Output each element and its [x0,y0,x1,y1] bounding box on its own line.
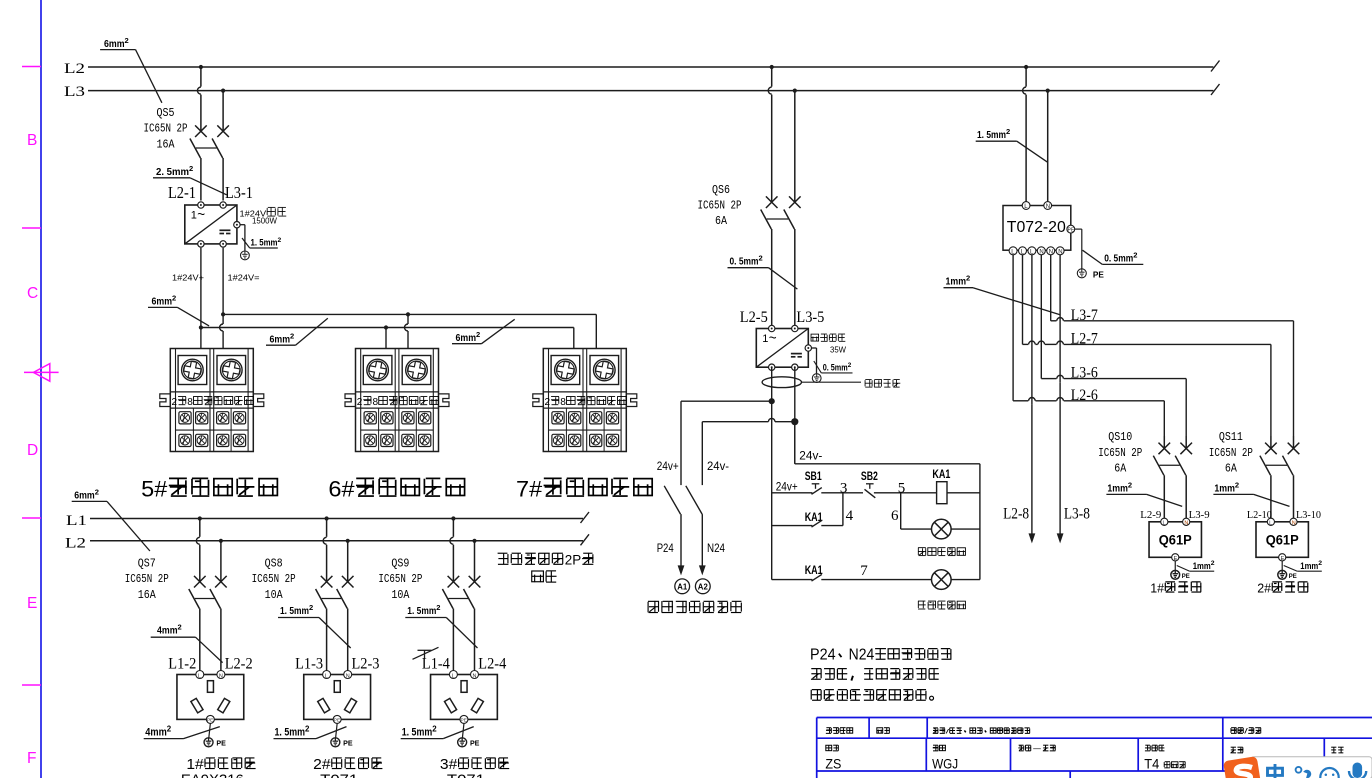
ground PE of U1 [241,251,250,260]
svg-text:QS10: QS10 [1108,431,1132,444]
label 3#电源插座 [440,757,509,778]
circuit breaker QS11 IC65N 2P 6A [1209,431,1299,518]
svg-text:PE: PE [1289,573,1298,580]
svg-text:1mm: 1mm [1107,483,1128,495]
svg-text:6: 6 [891,508,899,524]
svg-text:8: 8 [560,397,566,408]
wire label 6mm2 (distribution +) [148,294,209,326]
svg-text:2: 2 [1133,251,1137,260]
wire L2-7 output [1023,255,1271,436]
svg-text:IC65N 2P: IC65N 2P [252,573,296,586]
svg-text:L2-4: L2-4 [478,655,506,672]
wire label 1.5mm2 (T072) [976,127,1048,162]
svg-text:6A: 6A [715,215,727,228]
wire label 1mm2 (QS11) [1213,481,1289,507]
label start indicator lamp [918,548,965,556]
svg-text:IC65N 2P: IC65N 2P [698,200,742,213]
power socket XS3 (3#电源插座) [431,671,498,724]
node L3-9 [1189,510,1210,521]
svg-text:PE: PE [207,718,213,724]
note use blue wire [865,380,900,388]
svg-text:2#: 2# [1257,581,1271,595]
wire 24v- vertical [794,367,796,464]
svg-text:2: 2 [476,330,480,339]
svg-text:Q61P: Q61P [1266,532,1299,547]
wire U2 PE lead [812,348,817,373]
svg-text:5: 5 [898,480,906,496]
svg-text:1mm: 1mm [1300,561,1318,572]
wire P24 with arrow to A1 [657,514,685,575]
svg-text:6mm: 6mm [152,296,173,308]
power socket XS1 (1#电源插座) [177,671,244,724]
bus L2 (lower) [65,534,589,551]
svg-text:1#24V=: 1#24V= [228,273,260,283]
wire label 6mm2 (QS5 feeder) [100,36,162,103]
node L1-2 [168,655,196,672]
svg-text:F: F [27,750,36,767]
contact KA1 aux (NO) [805,508,854,527]
svg-text:6mm: 6mm [104,38,125,50]
svg-text:EA9X316: EA9X316 [181,772,244,778]
note P24/N24 outputs [810,647,951,701]
svg-text:1. 5mm: 1. 5mm [251,238,278,248]
svg-text:L3-10: L3-10 [1296,510,1321,521]
svg-text:2: 2 [309,603,313,612]
wire label 1.5mm2 (QS8 load) [278,603,351,648]
node L2-1 [168,183,196,202]
node L2-9 [1140,510,1161,521]
T072 output terminals [1009,247,1064,256]
svg-text:2: 2 [1235,481,1239,490]
svg-text:2: 2 [172,294,176,303]
note use Schneider 2P busbar [498,553,594,583]
svg-text:PE: PE [461,718,467,724]
wire label 6mm2 (right) [452,319,515,344]
wire socket XS2 PE [336,723,338,737]
ground PE of XS1 [204,738,226,748]
wire U1 PE lead [240,225,245,251]
contact KA1 (NC) rung3 [805,563,932,581]
svg-text:N: N [1058,249,1062,255]
svg-text:1#24V+: 1#24V+ [172,273,204,283]
wire label 0.5mm2 (T072 PE) [1083,250,1144,264]
svg-text:24v+: 24v+ [657,459,679,473]
wire rung1 node5 segment [874,480,937,496]
svg-text:2: 2 [357,397,363,408]
svg-text:L3: L3 [64,84,85,100]
svg-text:L2-5: L2-5 [740,309,768,326]
svg-text:1. 5mm: 1. 5mm [280,605,309,617]
svg-text:1mm: 1mm [1214,483,1235,495]
junction L1 tap for QS9 [451,516,455,520]
svg-text:C: C [27,285,38,302]
IME toolbar overlay [1223,756,1372,778]
node L2-10 [1247,510,1272,521]
svg-text:D: D [27,442,38,459]
svg-text:QS5: QS5 [157,107,175,120]
wire label 1mm2 (T072 outputs) [944,274,1061,315]
svg-text:KA1: KA1 [805,512,823,524]
wire label ground XS2 [274,724,347,738]
wire label 1mm2 (Q61P #2 PE) [1297,560,1322,572]
label stop indicator lamp [918,601,965,609]
revision mark above L1-4 [413,647,439,659]
svg-text:IC65N 2P: IC65N 2P [378,573,422,586]
wire socket XS1 PE [209,723,211,737]
wire 1#24V- from U1 with jump [220,248,260,349]
svg-text:0. 5mm: 0. 5mm [823,363,848,373]
table row2 labels [825,745,1343,771]
node L2-3 [352,655,380,672]
svg-text:QS11: QS11 [1219,431,1243,444]
terminal A2 [695,579,710,594]
wire 1#24V+ from U1 [172,248,204,349]
wire Q61P #1 PE [1175,561,1189,571]
svg-text:1. 5mm: 1. 5mm [275,727,306,739]
wire T072 L feed with jump over L3 [1023,67,1026,202]
svg-text:2P: 2P [565,553,581,568]
svg-text:L: L [1163,520,1166,526]
svg-text:PE: PE [1068,228,1075,234]
svg-text:IC65N 2P: IC65N 2P [1209,447,1253,460]
svg-text:L2: L2 [64,61,85,77]
svg-text:1. 5mm: 1. 5mm [977,129,1006,141]
svg-text:IC65N 2P: IC65N 2P [125,573,169,586]
svg-text:0. 5mm: 0. 5mm [1104,253,1133,265]
node L3-1 [225,183,253,202]
svg-text:/: / [1244,729,1248,736]
svg-text:2: 2 [167,724,172,733]
svg-text:N: N [219,673,223,679]
svg-text:1mm: 1mm [946,276,967,288]
circuit breaker QS6 IC65N 2P 6A [698,91,801,326]
wire label 1mm2 (QS10) [1106,481,1182,507]
svg-text:-: - [1032,746,1045,753]
svg-text:L3-5: L3-5 [796,309,824,326]
wire label 1mm2 (Q61P #1 PE) [1190,560,1215,572]
svg-text:PE: PE [1182,573,1191,580]
svg-text:L2-1: L2-1 [168,183,196,202]
wire node5 drop [891,493,901,529]
svg-text:L1: L1 [66,513,87,529]
svg-text:16A: 16A [157,139,175,152]
svg-text:N: N [1039,249,1043,255]
disconnect blade P24 [664,486,680,514]
svg-text:PE: PE [1093,270,1104,280]
svg-text:~: ~ [769,331,777,346]
ground PE of T072 [1077,269,1104,280]
circuit breaker QS10 IC65N 2P 6A [1098,431,1192,518]
wire coil to right rail [947,492,980,494]
svg-text:PE: PE [343,739,353,748]
svg-text:/: / [946,729,950,736]
svg-text:IC65N 2P: IC65N 2P [1098,447,1142,460]
svg-text:4mm: 4mm [145,727,167,739]
junction box JB7 (2in8out) [533,349,637,452]
wire ladder right rail [979,464,981,580]
title block table [817,718,1372,778]
svg-text:N24: N24 [707,541,725,555]
svg-text:1: 1 [762,333,768,345]
junction L2 tap for QS6 [770,65,774,69]
svg-text:SB1: SB1 [805,471,822,483]
svg-text:1. 5mm: 1. 5mm [402,727,433,739]
svg-text:2: 2 [172,397,178,408]
svg-text:6mm: 6mm [456,332,477,344]
junction box JB6 (2in8out) [345,349,449,452]
junction box JB5 (2in8out) [160,349,264,452]
junction L2 tap for QS7 [219,539,223,543]
svg-text:2: 2 [290,331,294,340]
svg-text:N: N [1184,520,1188,526]
svg-text:2: 2 [432,724,437,733]
wire lamp HL2 to rail [951,579,980,581]
main board module Q61P #2 [1256,518,1308,562]
svg-text:2. 5mm: 2. 5mm [156,166,189,178]
svg-text:L2: L2 [65,536,86,552]
junction L3 tap for T072 [1046,89,1050,93]
blue wire marker ellipse [762,377,861,388]
svg-text:QS9: QS9 [391,558,409,571]
power supply U1 1#24V dianyuan 1500W [185,202,286,247]
ground PE of Q61P #1 [1171,570,1191,580]
svg-text:~: ~ [197,207,205,222]
svg-text:1500W: 1500W [252,216,278,226]
wire label 4mm2 (QS7 load) [151,623,223,663]
label 1#电源插座 [181,757,256,778]
bus L3 (top) [64,84,1220,100]
svg-text:T072-20: T072-20 [1007,219,1066,236]
svg-text:6A: 6A [1225,463,1237,476]
junction dot 24v+ branch [769,398,775,404]
wire QS7 pole1 from L1 with jump over L2 [196,519,200,570]
svg-text:PE: PE [334,718,340,724]
table header labels [826,728,1261,736]
svg-text:L3-9: L3-9 [1189,510,1210,521]
label 7# junction box [516,477,652,502]
svg-text:L1-4: L1-4 [422,655,450,672]
svg-text:A2: A2 [698,582,708,592]
terminal A1 [675,579,690,594]
svg-text:2: 2 [1318,560,1322,567]
svg-text:2: 2 [1128,481,1132,490]
node L1-3 [295,655,323,672]
wire label 6mm2 (lower feeder) [72,488,150,551]
svg-text:2: 2 [189,164,193,173]
wire L3-8 output with arrow [1057,255,1090,544]
svg-text:L: L [1269,520,1272,526]
svg-text:4mm: 4mm [157,625,178,637]
svg-text:L2-6: L2-6 [1071,387,1098,404]
svg-text:IC65N 2P: IC65N 2P [144,123,188,136]
svg-text:P24: P24 [810,647,836,664]
rung 2 wire (seal-in) [772,525,813,527]
svg-text:2#: 2# [313,757,330,773]
svg-text:PE: PE [470,739,480,748]
svg-text:3: 3 [840,480,848,496]
svg-text:L: L [452,673,455,679]
svg-text:ZS: ZS [825,757,841,772]
svg-text:2: 2 [436,603,440,612]
indicator lamp stop HL2 [932,570,952,590]
junction L2 tap for T072 [1024,65,1028,69]
junction L3 tap for QS6 [793,89,797,93]
svg-text:1#: 1# [1150,581,1164,595]
power supply T072-20 [1003,202,1075,251]
wire QS6 pole1 from L2 with jump over L3 [768,67,771,190]
wire rung1 node3 segment [821,480,863,496]
svg-text:SB2: SB2 [861,471,878,483]
main board module Q61P #1 [1149,518,1201,562]
wire 24v+ vertical (ladder left rail) [771,367,773,579]
wire lamp HL1 to rail [951,528,980,530]
svg-text:L3-6: L3-6 [1071,365,1098,382]
svg-text:PE: PE [216,739,226,748]
svg-text:2: 2 [305,724,310,733]
svg-text:QS8: QS8 [265,558,283,571]
svg-text:2: 2 [848,362,852,369]
power socket XS2 (2#电源插座) [304,671,371,724]
wire QS9 pole1 from L1 with jump over L2 [450,519,453,570]
wire 24v- top rail of ladder [795,422,980,464]
ground PE of XS2 [331,738,353,748]
svg-text:N24: N24 [849,647,875,664]
svg-text:24v-: 24v- [707,459,729,473]
svg-text:L3-7: L3-7 [1071,307,1098,324]
svg-text:L2-3: L2-3 [352,655,380,672]
svg-text:N: N [473,673,477,679]
svg-text:B: B [27,132,37,149]
wire Q61P #2 PE [1282,561,1297,571]
svg-text:1: 1 [191,210,197,222]
svg-text:L2-2: L2-2 [225,655,253,672]
power supply U2 kaiji dianyuan 35W [756,325,846,370]
label 2#主基板 [1257,581,1308,595]
wire label 1.5mm2 (QS9 load) [405,603,477,648]
circuit breaker QS8 IC65N 2P 10A [252,541,354,671]
label 2#电源插座 [313,757,382,778]
junction L1 tap for QS8 [325,516,329,520]
svg-text:2: 2 [759,254,763,263]
junction L2 tap for QS8 [346,539,350,543]
svg-text:2: 2 [966,274,970,283]
wire label 1.5mm2 (U1 PE) [242,237,282,248]
svg-text:N: N [346,673,350,679]
svg-text:2: 2 [278,237,282,244]
wire branch to P24 [657,401,772,485]
svg-text:L3-1: L3-1 [225,183,253,202]
svg-text:2: 2 [125,36,129,45]
svg-text:E: E [1281,556,1285,562]
label 6# junction box [328,477,464,502]
wire N24 with arrow to A2 [699,514,725,575]
ground PE of U2 [812,374,821,383]
junction L3 tap for QS5 [221,89,225,93]
svg-text:L3-8: L3-8 [1064,506,1090,523]
wire branch to N24 [702,418,795,485]
wire L2-6 output [1013,255,1164,436]
bus L2 (top) [64,61,1220,78]
svg-text:1mm: 1mm [1193,561,1211,572]
svg-text:24v+: 24v+ [776,479,798,493]
wire 24V- distribution rail (upper) [223,314,596,348]
svg-text:16A: 16A [138,589,156,602]
node L2-2 [225,655,253,672]
svg-text:2: 2 [1006,127,1010,136]
svg-text:8: 8 [373,397,379,408]
svg-text:35W: 35W [830,346,846,355]
wire lamp rung [901,528,932,530]
ground PE of Q61P #2 [1278,570,1298,580]
circuit breaker QS7 IC65N 2P 16A [125,541,227,671]
svg-text:24v-: 24v- [799,449,822,463]
svg-text:6mm: 6mm [270,333,291,345]
node L1-4 [422,655,450,672]
svg-text:L1-2: L1-2 [168,655,196,672]
junction L2 tap for QS9 [472,539,476,543]
svg-text:N: N [1049,249,1053,255]
disconnect blade N24 [686,486,702,514]
svg-text:7: 7 [860,563,868,579]
svg-text:A1: A1 [677,582,687,592]
svg-text:6A: 6A [1114,463,1126,476]
relay coil KA1 [932,469,950,504]
svg-text:KA1: KA1 [932,469,950,481]
junction dot 24V+ rail [199,325,203,329]
wire L3-6 output [1041,255,1186,436]
wire node3 drop [842,493,844,526]
wire label 0.5mm2 (U2 PE) [814,361,853,373]
circuit breaker QS5 IC65N 2P 16A [144,91,229,201]
indicator lamp start HL1 [932,519,952,539]
wire label 2.5mm2 [153,164,227,195]
node L2-5 [740,309,768,326]
svg-text:L2-8: L2-8 [1003,506,1029,523]
svg-text:L1-3: L1-3 [295,655,323,672]
wire stub junction box 6 right [405,312,411,348]
svg-text:1. 5mm: 1. 5mm [407,605,436,617]
svg-text:T071: T071 [447,772,485,778]
svg-text:L: L [198,673,201,679]
svg-text:4: 4 [846,508,854,524]
svg-text:T4: T4 [1144,757,1159,772]
svg-text:2: 2 [95,488,99,497]
wire stub junction box 6 left [384,325,388,348]
wire L2-8 output with arrow [1003,255,1035,544]
svg-text:P24: P24 [657,541,674,555]
wire T072 N feed [1047,91,1049,202]
wire socket XS3 PE [462,723,464,737]
wire QS5 pole1 from L2 with jump over L3 [197,67,200,119]
svg-text:WGJ: WGJ [932,757,958,772]
svg-text:E: E [27,595,37,612]
circuit breaker QS9 IC65N 2P 10A [378,541,480,671]
rung 3 wire stop [772,579,813,581]
svg-text:T071: T071 [320,772,358,778]
svg-text:QS6: QS6 [712,184,730,197]
svg-text:3#: 3# [440,757,457,773]
svg-text:1#: 1# [186,757,203,773]
wire label ground XS3 [401,724,474,738]
svg-text:10A: 10A [391,589,409,602]
svg-text:6mm: 6mm [74,490,95,502]
svg-text:N: N [1046,204,1050,210]
wire label 6mm2 (mid) [266,318,328,345]
svg-text:Q61P: Q61P [1159,532,1192,547]
wire QS8 pole1 from L1 with jump over L2 [323,519,326,570]
svg-text:L2-7: L2-7 [1071,330,1098,347]
bus L1 (lower) [66,512,589,529]
